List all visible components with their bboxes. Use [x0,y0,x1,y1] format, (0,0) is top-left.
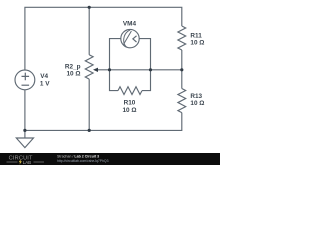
voltmeter VM4 needle [123,31,131,45]
wire R2_p bottom lead [88,79,90,130]
node ground junction [23,129,26,132]
svg-text:LAB: LAB [23,160,31,165]
svg-text:Strachan / Lab 2 Circuit 3: Strachan / Lab 2 Circuit 3 [57,154,99,158]
footer bar [0,153,220,165]
footer CircuitLab logo [7,155,45,165]
svg-text:R2_p: R2_p [65,64,81,71]
node top junction [88,6,91,9]
wire top rail [25,7,182,70]
svg-text:10 Ω: 10 Ω [190,39,204,46]
node wiper-left junction [108,68,111,71]
ground triangle [16,138,33,148]
svg-text:10 Ω: 10 Ω [122,107,136,114]
svg-text:R10: R10 [124,100,136,107]
wire wiper line [97,69,182,71]
wire right rail mid lower [181,70,183,89]
wire R10 right branch [142,70,151,91]
svg-text:1 V: 1 V [40,80,50,87]
voltage source V4 minus sign [22,84,30,86]
node wiper-right junction [149,68,152,71]
voltmeter VM4 V glyph [133,36,137,42]
wire bottom rail [25,113,182,131]
resistor R10 [118,87,142,95]
voltage source V4 circle [15,70,35,90]
svg-text:10 Ω: 10 Ω [190,100,204,107]
svg-text:10 Ω: 10 Ω [66,71,80,78]
wire R2_p top lead [88,7,90,55]
wire VM4 left branch [110,39,121,70]
voltmeter VM4 circle [121,29,139,47]
resistor R2_p [85,55,93,79]
svg-text:http://circuitlab.com/csheJq7P: http://circuitlab.com/csheJq7PhQ3 [57,159,109,163]
svg-text:VM4: VM4 [123,21,137,28]
wire right rail mid upper [181,50,183,70]
wire V4 bottom lead [24,90,26,131]
svg-text:V4: V4 [40,73,48,80]
node rail junction [180,68,183,71]
resistor R11 [178,26,186,50]
potentiometer wiper arrow R2_p [93,68,98,72]
wire VM4 right branch [139,39,150,70]
footer caption [57,154,109,163]
wire R10 left branch [110,70,119,91]
voltmeter VM4 scale arc [124,30,130,47]
voltage source V4 plus sign [22,73,30,81]
node bottom R2_p junction [88,129,91,132]
resistor R13 [178,89,186,113]
ground stub [24,130,26,138]
